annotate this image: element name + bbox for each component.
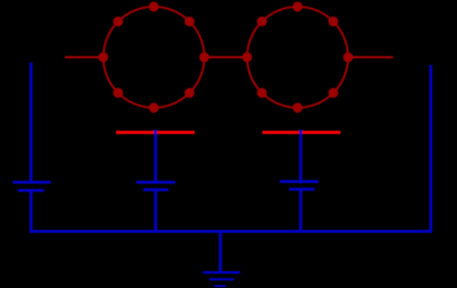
capacitor C2 bottom plate <box>143 188 168 191</box>
wire: ground stem <box>219 231 222 272</box>
junction dot L2 upper-right <box>328 17 338 27</box>
ground bar 2 <box>209 278 234 280</box>
junction dot L1 upper-left <box>113 17 123 27</box>
wire: lead from plate 1 down to C2 <box>154 130 157 183</box>
wire: left vertical upper segment <box>30 63 33 182</box>
inductor ring L1 <box>103 7 204 108</box>
inductor ring L2 <box>247 7 348 108</box>
junction dot L1 right <box>199 52 209 62</box>
capacitor C1 bottom plate <box>18 189 44 192</box>
junction dot L2 top <box>293 2 303 12</box>
capacitor C1 top plate <box>13 181 51 184</box>
capacitor C3 bottom plate <box>289 188 315 191</box>
wire: right output lead <box>348 56 394 58</box>
wire: lead from plate 2 down to C3 <box>299 130 302 184</box>
junction dot L1 bottom <box>149 103 159 113</box>
wire: left input lead <box>65 56 104 58</box>
junction dot L2 bottom <box>293 103 303 113</box>
capacitor C2 top plate <box>136 181 175 184</box>
junction dot L1 upper-right <box>185 17 195 27</box>
junction dot L1 left <box>98 52 108 62</box>
junction dot L2 upper-left <box>257 17 267 27</box>
ground bar 3 <box>214 285 225 287</box>
wire: left vertical lower segment <box>30 190 33 231</box>
wire: coupling link between rings <box>204 56 248 58</box>
junction dot L1 lower-right <box>185 88 195 98</box>
junction dot L2 lower-right <box>328 88 338 98</box>
junction dot L1 top <box>149 2 159 12</box>
wire: right vertical <box>429 65 432 231</box>
junction dot L2 left <box>242 52 252 62</box>
wire: C3 lower lead <box>299 189 302 231</box>
ground bar 1 <box>203 271 240 274</box>
coupling plate under ring L2 (red electrode) <box>262 131 340 134</box>
capacitor C3 top plate <box>280 180 319 183</box>
junction dot L1 lower-left <box>113 88 123 98</box>
wire: C2 lower lead <box>154 190 157 232</box>
wire: bottom ground bus <box>30 230 433 233</box>
junction dot L2 right <box>343 52 353 62</box>
coupling plate under ring L1 (red electrode) <box>116 131 195 134</box>
junction dot L2 lower-left <box>257 88 267 98</box>
